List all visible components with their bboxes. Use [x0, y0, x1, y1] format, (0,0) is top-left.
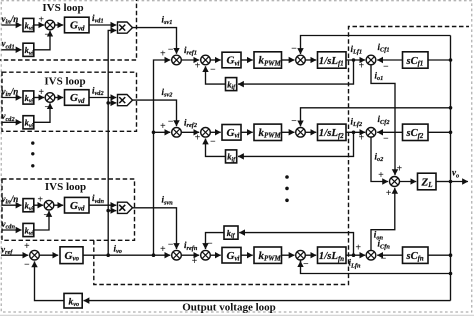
svg-text:IVS loop: IVS loop: [44, 76, 85, 88]
svg-text:vin/n: vin/n: [2, 14, 19, 26]
svg-text:+: +: [195, 60, 201, 71]
svg-text:−: −: [210, 64, 216, 75]
svg-text:−: −: [44, 30, 50, 41]
svg-text:−: −: [24, 260, 30, 271]
svg-text:+: +: [37, 195, 43, 206]
svg-text:IVS loop: IVS loop: [45, 181, 86, 193]
svg-text:−: −: [168, 117, 174, 128]
svg-text:+: +: [38, 15, 44, 26]
svg-text:+: +: [160, 49, 166, 60]
svg-text:IVS loop: IVS loop: [42, 2, 83, 14]
svg-text:−: −: [381, 254, 387, 265]
svg-text:−: −: [303, 259, 309, 270]
svg-text:−: −: [291, 116, 297, 127]
svg-text:−: −: [168, 44, 174, 55]
svg-text:−: −: [210, 137, 216, 148]
svg-text:−: −: [43, 210, 49, 221]
svg-text:+: +: [378, 170, 384, 181]
svg-text:+: +: [24, 241, 30, 252]
svg-text:vin/n: vin/n: [2, 86, 19, 98]
svg-text:+: +: [358, 133, 364, 144]
svg-text:−: −: [383, 61, 389, 72]
svg-text:−: −: [168, 240, 174, 251]
svg-text:+: +: [396, 163, 402, 174]
svg-text:−: −: [207, 239, 213, 250]
svg-text:+: +: [195, 133, 201, 144]
svg-text:+: +: [355, 243, 361, 254]
svg-text:+: +: [386, 188, 392, 199]
svg-text:+: +: [358, 60, 364, 71]
svg-text:+: +: [160, 244, 166, 255]
svg-text:−: −: [291, 44, 297, 55]
svg-text:−: −: [383, 134, 389, 145]
svg-text:+: +: [192, 256, 198, 267]
svg-text:Output voltage loop: Output voltage loop: [182, 302, 276, 314]
svg-text:vin/n: vin/n: [2, 194, 19, 206]
svg-text:+: +: [38, 87, 44, 98]
svg-text:+: +: [160, 121, 166, 132]
svg-text:−: −: [44, 102, 50, 113]
